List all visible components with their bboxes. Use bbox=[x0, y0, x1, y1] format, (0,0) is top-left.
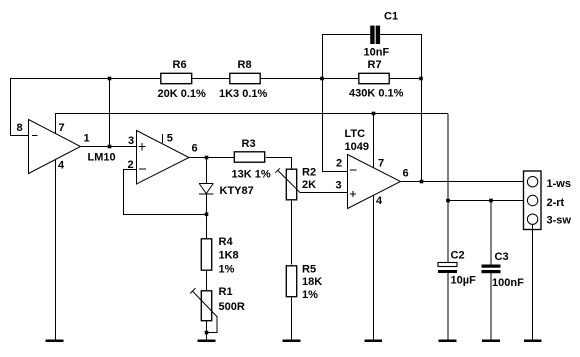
sensor diode KTY87 bbox=[199, 184, 254, 198]
ground R1 bbox=[198, 340, 216, 343]
svg-text:4: 4 bbox=[58, 160, 65, 172]
node junction C1-right tap bbox=[419, 77, 423, 81]
svg-text:R7: R7 bbox=[368, 59, 382, 71]
svg-text:10µF: 10µF bbox=[451, 275, 477, 287]
resistor R4 bbox=[201, 236, 238, 276]
resistor R5 bbox=[286, 264, 322, 302]
svg-text:R2: R2 bbox=[302, 167, 316, 179]
svg-text:C3: C3 bbox=[495, 251, 509, 263]
node junction feedback to op1 output bbox=[108, 145, 112, 149]
svg-text:13K 1%: 13K 1% bbox=[232, 169, 271, 181]
svg-text:430K 0.1%: 430K 0.1% bbox=[349, 88, 404, 100]
svg-text:500R: 500R bbox=[219, 301, 245, 313]
node junction R1 wiper bbox=[205, 331, 209, 335]
ground R5 bbox=[283, 340, 301, 343]
svg-text:1049: 1049 bbox=[345, 141, 369, 153]
svg-text:2-rt: 2-rt bbox=[547, 197, 565, 209]
svg-text:1: 1 bbox=[84, 133, 90, 145]
op-amp U2 LTC1049 bbox=[336, 128, 409, 209]
svg-text:8: 8 bbox=[17, 122, 23, 134]
wire R7 to node B bbox=[390, 78, 421, 80]
wire op1 output to op2 + bbox=[81, 146, 137, 148]
wire connector pin3 to ground bbox=[532, 224, 534, 340]
svg-text:1%: 1% bbox=[302, 289, 318, 301]
svg-text:1%: 1% bbox=[219, 264, 235, 276]
node junction LTC pin7 tap bbox=[372, 112, 376, 116]
wire R6 to R8 bbox=[192, 78, 229, 80]
svg-text:R6: R6 bbox=[173, 59, 187, 71]
wire R3 to R2 top bbox=[266, 157, 292, 169]
svg-text:1K8: 1K8 bbox=[219, 250, 239, 262]
svg-text:4: 4 bbox=[376, 195, 383, 207]
wire node B down to LTC output bbox=[421, 78, 423, 181]
svg-text:18K: 18K bbox=[302, 276, 322, 288]
svg-text:LTC: LTC bbox=[345, 128, 366, 140]
wire R1 wiper short bbox=[206, 316, 217, 333]
connector J1 bbox=[524, 171, 572, 230]
svg-text:1-ws: 1-ws bbox=[547, 178, 571, 190]
wire feedback vertical x=109 bbox=[109, 78, 111, 147]
svg-text:1K3 0.1%: 1K3 0.1% bbox=[219, 88, 268, 100]
wire R8 to R7 (node A) bbox=[261, 78, 358, 80]
svg-text:C1: C1 bbox=[384, 11, 398, 23]
ground op1 pin4 bbox=[46, 340, 64, 343]
svg-text:3: 3 bbox=[336, 180, 342, 192]
wire op2 output down to KTY87 bbox=[206, 158, 208, 184]
svg-text:R3: R3 bbox=[242, 138, 256, 150]
svg-text:R8: R8 bbox=[238, 59, 252, 71]
ground C2 bbox=[439, 340, 457, 343]
wire R2 wiper to LTC pin3 bbox=[300, 192, 348, 194]
svg-text:R5: R5 bbox=[302, 264, 316, 276]
wire C2 to ground bbox=[447, 273, 449, 340]
ground C3 bbox=[482, 340, 500, 343]
wire node A down to LTC pin 2 bbox=[322, 78, 347, 172]
wire op2 pin2 feedback loop bbox=[123, 170, 206, 215]
wire LTC pin4 to ground bbox=[373, 195, 375, 340]
resistor R6 bbox=[158, 59, 207, 100]
wire main top net to R6 bbox=[10, 78, 160, 80]
svg-text:KTY87: KTY87 bbox=[220, 185, 254, 197]
node junction supply / C2 bbox=[446, 199, 450, 203]
wire R4 to R1 bbox=[206, 271, 208, 290]
svg-text:10nF: 10nF bbox=[364, 47, 390, 59]
wire C1 loop top and sides bbox=[322, 34, 422, 78]
wire supply rail down at x=448 bbox=[447, 114, 449, 263]
op-amp U1a LM10 bbox=[17, 120, 116, 174]
svg-text:3: 3 bbox=[128, 135, 134, 147]
capacitor C1 bbox=[364, 11, 399, 59]
capacitor C3 bbox=[482, 251, 525, 289]
svg-text:2K: 2K bbox=[302, 179, 316, 191]
node junction op2 output / KTY87 bbox=[205, 156, 209, 160]
node junction supply / C3 bbox=[489, 199, 493, 203]
wire C3 to ground bbox=[490, 273, 492, 340]
svg-text:6: 6 bbox=[403, 168, 409, 180]
trimmer R1 bbox=[190, 286, 245, 321]
op-amp U1b LM10 second stage bbox=[128, 131, 198, 185]
node junction R6-left / op1 feedback bbox=[108, 77, 112, 81]
svg-text:5: 5 bbox=[167, 133, 173, 145]
svg-text:2: 2 bbox=[336, 158, 342, 170]
resistor R3 bbox=[232, 138, 271, 181]
capacitor C2 polarized bbox=[438, 250, 476, 287]
svg-text:100nF: 100nF bbox=[492, 277, 524, 289]
node junction C1-left tap bbox=[320, 77, 324, 81]
node junction LTC output / feedback bbox=[420, 180, 424, 184]
wire op1 pin7 stub bbox=[55, 114, 57, 134]
resistor R7 bbox=[349, 59, 404, 100]
wire LTC pin7 stub bbox=[373, 114, 375, 169]
svg-text:7: 7 bbox=[59, 122, 65, 134]
svg-text:7: 7 bbox=[378, 158, 384, 170]
wire R2 bottom to R5 bbox=[291, 201, 293, 265]
ground connector pin3 bbox=[524, 340, 542, 343]
svg-text:6: 6 bbox=[192, 143, 198, 155]
wire supply to connector pin2 bbox=[448, 200, 528, 202]
node junction feedback / KTY87-R4 bbox=[205, 213, 209, 217]
resistor R8 bbox=[219, 59, 268, 100]
potentiometer R2 bbox=[275, 167, 316, 200]
ground LTC pin4 bbox=[365, 340, 383, 343]
svg-text:R4: R4 bbox=[219, 236, 234, 248]
wire C3 branch down bbox=[490, 201, 492, 265]
wire V+ supply rail bbox=[55, 113, 448, 115]
svg-text:C2: C2 bbox=[451, 250, 465, 262]
wire op2 output to R3 bbox=[189, 157, 234, 159]
wire R5 to ground bbox=[291, 298, 293, 341]
svg-text:20K 0.1%: 20K 0.1% bbox=[158, 88, 207, 100]
svg-text:R1: R1 bbox=[219, 286, 233, 298]
wire KTY87 to R4 bbox=[206, 194, 208, 238]
svg-text:3-sw: 3-sw bbox=[547, 215, 572, 227]
wire op2 pin5 stub bbox=[162, 134, 164, 143]
wire R1 to ground bbox=[206, 321, 208, 341]
wire top-left vertical from main net down to op1 inverting input bbox=[10, 78, 28, 136]
wire LTC output to connector pin1 bbox=[401, 181, 529, 183]
svg-text:LM10: LM10 bbox=[88, 152, 116, 164]
wire op1 pin4 to ground bbox=[55, 160, 57, 341]
